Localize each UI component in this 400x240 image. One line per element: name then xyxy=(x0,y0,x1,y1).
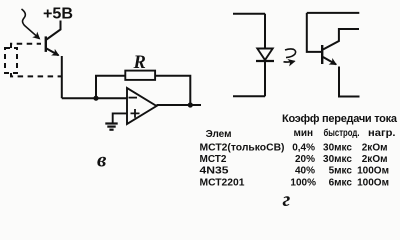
svg-text:5мкс: 5мкс xyxy=(329,166,353,177)
LED D1 anode lead xyxy=(264,14,266,49)
svg-text:быстрод.: быстрод. xyxy=(324,127,360,139)
light coupling squiggle xyxy=(284,49,296,62)
svg-text:МСТ2201: МСТ2201 xyxy=(200,177,245,188)
phototransistor Q2 collector lead xyxy=(323,29,359,50)
svg-text:в: в xyxy=(97,148,107,172)
svg-text:мин: мин xyxy=(294,128,314,139)
op-amp U1 output wire xyxy=(157,104,202,106)
wire non-inverting input to ground xyxy=(113,113,127,122)
LED D1 cathode rail xyxy=(233,95,265,97)
svg-text:30мкс: 30мкс xyxy=(323,154,352,165)
phototransistor Q1 emitter lead xyxy=(47,49,59,56)
svg-text:нагр.: нагр. xyxy=(368,128,396,139)
phototransistor Q2 base rail xyxy=(307,12,360,14)
node A junction dot xyxy=(93,96,98,101)
table row MCT2201 xyxy=(200,177,390,188)
wire emitter to summing node xyxy=(61,56,63,98)
phototransistor Q1 collector lead xyxy=(47,21,61,40)
svg-text:2кОм: 2кОм xyxy=(362,154,388,165)
node B junction dot xyxy=(188,102,193,107)
svg-text:20%: 20% xyxy=(295,154,315,165)
svg-text:г: г xyxy=(283,187,291,211)
table row MCT2 xyxy=(200,154,388,165)
light arrow into phototransistor Q1 xyxy=(22,9,40,39)
phototransistor Q2 base bar xyxy=(321,45,323,64)
svg-text:Элем: Элем xyxy=(206,129,232,140)
resistor R body xyxy=(125,71,155,80)
svg-text:+5В: +5В xyxy=(43,5,73,22)
svg-text:6мкс: 6мкс xyxy=(329,177,353,188)
wire to inverting input xyxy=(62,97,127,99)
ground xyxy=(105,124,117,130)
svg-text:0,4%: 0,4% xyxy=(292,142,315,153)
svg-text:R: R xyxy=(133,53,146,73)
svg-text:4N35: 4N35 xyxy=(200,166,230,177)
wire resistor R to node B xyxy=(155,76,190,105)
op-amp U1 plus pin mark xyxy=(131,109,140,118)
svg-text:40%: 40% xyxy=(295,166,315,177)
svg-text:100Ом: 100Ом xyxy=(357,166,389,177)
dashed lead to emitter xyxy=(11,73,61,76)
LED D1 anode rail xyxy=(233,13,265,15)
dashed lead to base xyxy=(11,44,41,48)
svg-text:100Ом: 100Ом xyxy=(357,177,389,188)
LED D1 triangle xyxy=(257,49,272,61)
phototransistor Q2 emitter lead xyxy=(323,57,336,64)
svg-text:МСТ2: МСТ2 xyxy=(200,154,227,165)
photocell package (dashed) xyxy=(5,48,17,73)
svg-text:2кОм: 2кОм xyxy=(362,142,388,153)
wire node A up to resistor R xyxy=(96,76,125,99)
phototransistor Q2 base lead xyxy=(307,13,322,52)
phototransistor Q2 emitter wire xyxy=(339,67,360,97)
LED D1 cathode bar xyxy=(256,60,274,62)
LED D1 cathode lead xyxy=(264,61,266,96)
op-amp U1 body xyxy=(127,88,157,124)
table row MCT2 (CB only) xyxy=(200,142,388,153)
svg-text:30мкс: 30мкс xyxy=(323,142,352,153)
svg-text:100%: 100% xyxy=(290,177,316,188)
phototransistor Q1 base bar xyxy=(45,36,47,52)
svg-text:Коэфф передачи тока: Коэфф передачи тока xyxy=(282,113,398,125)
op-amp U1 minus pin mark xyxy=(129,97,138,99)
svg-text:МСТ2(толькоСВ): МСТ2(толькоСВ) xyxy=(200,142,285,153)
table row 4N35 xyxy=(200,166,390,177)
